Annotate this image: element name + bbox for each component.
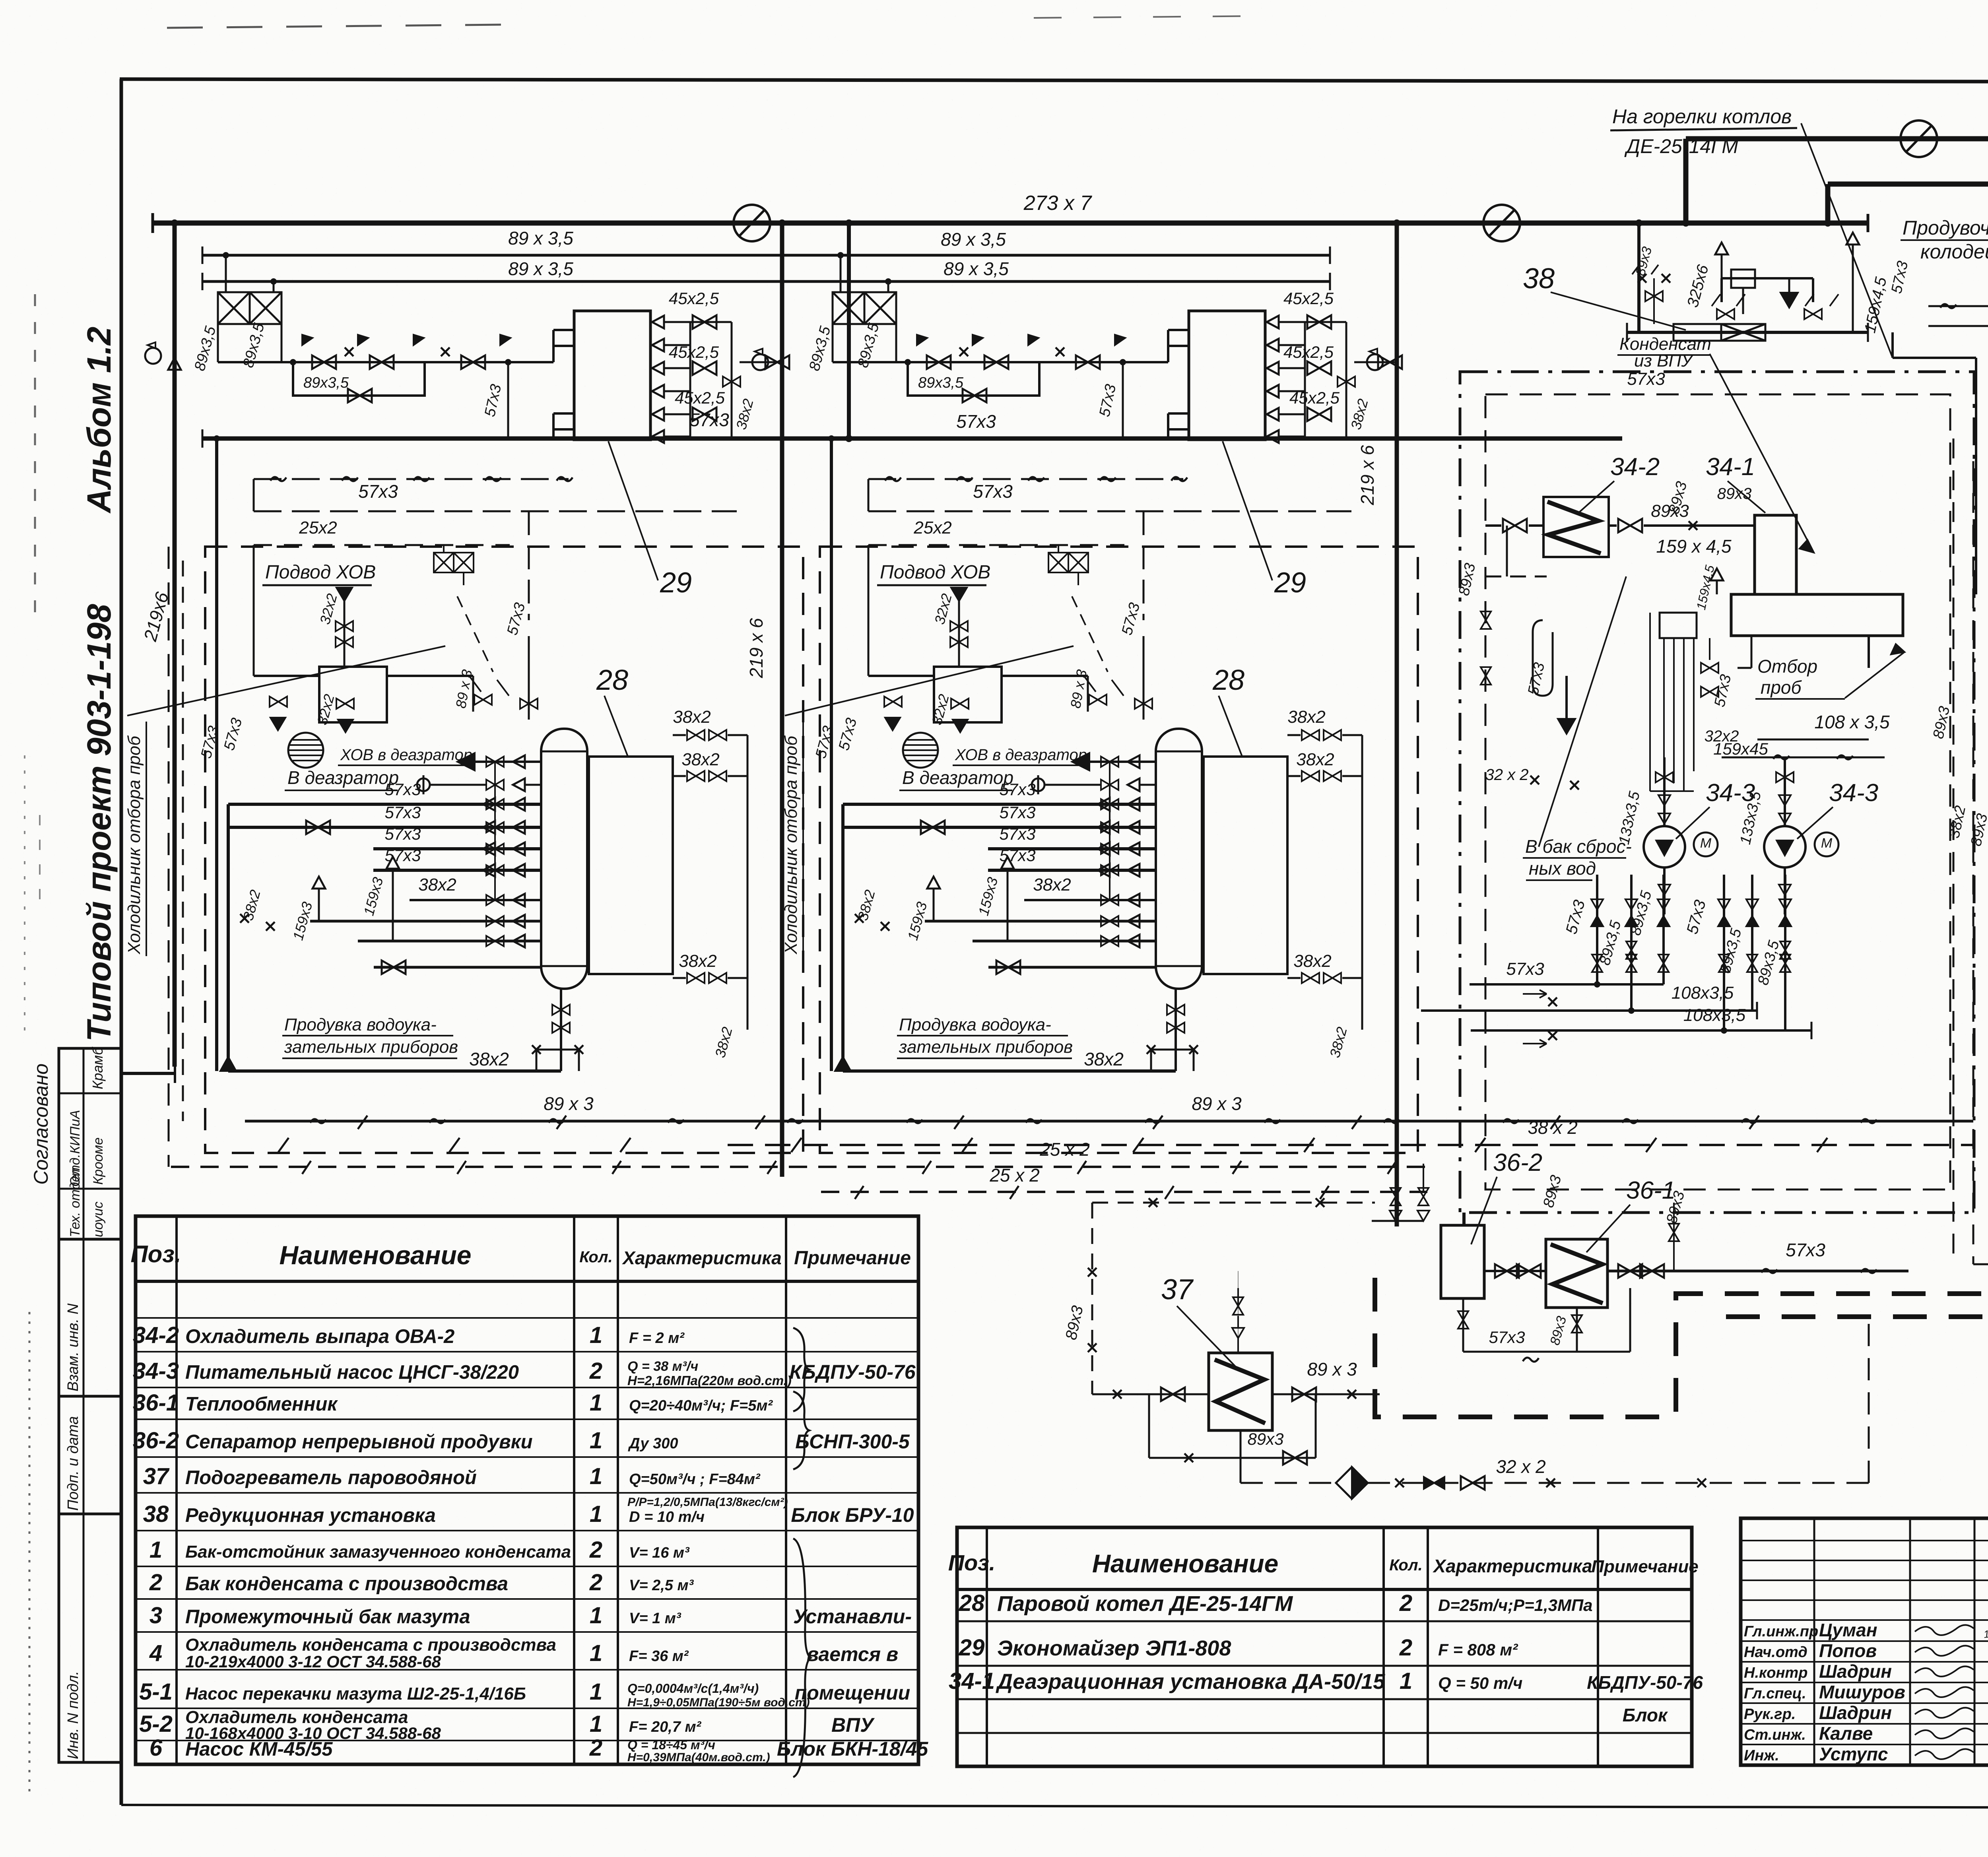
boiler unit 28 (right): boiler body 28 <box>1204 757 1287 974</box>
57x3 feed line <box>1470 983 1664 986</box>
parts table left <box>136 1216 918 1764</box>
boiler unit 28 (right): economizer inlet line <box>833 361 1168 363</box>
cooler 34-2 <box>1543 497 1609 557</box>
boiler unit 28 (left): valve cross assembly <box>218 292 250 324</box>
boiler unit 28 (left): right 38x2 connections <box>687 730 705 740</box>
boiler unit 28 (right): double-X valves mid <box>1048 553 1068 572</box>
line below 37 <box>1149 1457 1316 1459</box>
32x2 dashed line <box>1368 1482 1869 1484</box>
vertical dashed pipes bundle <box>1953 439 1955 1264</box>
boiler unit 28 (right): enclosure dashed box <box>820 547 1418 1153</box>
blowdown dashdot riser to 36-2 <box>1462 1213 1466 1225</box>
flow meter on header left <box>734 205 770 241</box>
KIP dash-dot enclosure <box>1460 372 1974 1213</box>
deaerator tank <box>1731 594 1903 636</box>
boiler unit 28 (right): feed lines to drum <box>843 803 1156 806</box>
boiler unit 28 (right): arrow into drum top <box>1072 753 1089 770</box>
steam to production line <box>1686 136 1988 142</box>
boiler unit 28 (right): blowdown bottom <box>1175 989 1177 1071</box>
boiler unit 28 (left): vent triangles 159x3 <box>313 877 325 889</box>
36-1 bottom drain <box>1576 1308 1578 1352</box>
deaerator internals box <box>1660 613 1697 638</box>
tank to pumps piping <box>1751 636 1753 668</box>
boiler unit 28 (left): flow meter small <box>752 349 768 370</box>
valves above 36-2 <box>1390 1188 1401 1205</box>
slash ticks on dashed lines <box>278 1138 289 1152</box>
reduction unit 38 line <box>1627 331 1868 334</box>
boiler unit 28 (left): lower drum inlets <box>486 916 504 926</box>
boiler unit 28 (left): 25x2 dashed <box>254 544 510 546</box>
boiler unit 28 (right): vent triangles 159x3 <box>927 877 940 889</box>
boiler unit 28 (left): sampling line 57x3 wavy <box>254 478 569 480</box>
left dashed verticals bottom area <box>168 547 170 1167</box>
scan edge artifacts left <box>34 294 36 620</box>
38x2 long dashed line <box>728 1144 1973 1146</box>
boiler unit 28 (left): slanted dashes and cluster <box>457 596 493 672</box>
boiler equipment table middle <box>957 1527 1692 1766</box>
diamond strainer <box>1336 1467 1368 1499</box>
junction dots block2 <box>837 252 844 258</box>
x dashed vertical left of 37 <box>1091 1203 1093 1394</box>
pump discharge manifold <box>1596 875 1598 984</box>
boiler unit 28 (right): 25x2 dashed <box>868 544 1124 546</box>
brace marks T1 <box>793 1328 809 1411</box>
sidebar signature block <box>59 1048 121 1239</box>
boiler unit 28 (right): phi symbol <box>1032 778 1044 791</box>
37 through line <box>1092 1393 1209 1395</box>
feedwater header 57x3 <box>202 437 1622 441</box>
boiler unit 28 (left): 57x3 dashed <box>254 510 737 512</box>
108x3.5 line A <box>1421 1009 1757 1012</box>
leader holodilnik left <box>127 646 445 716</box>
x-line to 36-2 <box>1092 1202 1375 1204</box>
valves above 37 <box>1233 1297 1243 1315</box>
boiler unit 28 (left): XOV heater box <box>319 667 387 722</box>
main steam header 273x7 <box>153 221 1868 226</box>
boiler unit 28 (right): economizer 29 <box>1189 311 1265 440</box>
flow meter on header right <box>1483 205 1520 241</box>
boiler unit 28 (right): boiler drum <box>1156 729 1202 989</box>
boiler unit 28 (right): right 38x2 connections <box>1302 730 1319 740</box>
water heater 37 <box>1209 1353 1272 1430</box>
heat exchanger 36-1 <box>1546 1239 1607 1308</box>
boiler unit 28 (right): XOV heater box <box>934 667 1002 722</box>
drain circle left <box>145 342 161 364</box>
leader kondensat <box>1710 354 1814 553</box>
boiler unit 28 (left): double-X valves mid <box>434 553 454 572</box>
kip arrows <box>1523 990 1547 998</box>
boiler unit 28 (right): flow meter small <box>1367 349 1383 370</box>
leader holodilnik right <box>785 646 1074 716</box>
89x3 long return line <box>245 1120 1973 1123</box>
34-2 valves <box>1503 519 1527 532</box>
25x2 dashed line B <box>821 1191 1427 1193</box>
boiler unit 28 (right): valve cross assembly <box>833 292 864 324</box>
boiler unit 28 (left): boiler body 28 <box>589 757 673 974</box>
junction dots block1 <box>223 252 229 258</box>
sidebar box Инв. N подл. <box>59 1514 121 1762</box>
reduction unit 38 boxes <box>1673 324 1721 341</box>
separator 36-2 <box>1441 1225 1484 1298</box>
vent triangle 38 <box>1715 243 1728 254</box>
drawing frame <box>120 79 123 1805</box>
36-2 bottom drain <box>1462 1298 1464 1352</box>
boiler unit 28 (right): drum inlet valves <box>1101 757 1118 767</box>
36-1 36-2 connecting line 57x3 <box>1484 1270 1546 1272</box>
25x2 dashed line A <box>171 1166 1427 1168</box>
boiler unit 28 (left): economizer outlet triangles <box>652 316 664 328</box>
34-2 left drain lines <box>1485 576 1547 578</box>
blowdown stub to frame <box>121 1072 175 1075</box>
steam to fuel-oil facility line <box>1828 182 1988 187</box>
valves left of 38 <box>1645 291 1663 301</box>
boiler unit 28 (right): sampling line 57x3 wavy <box>868 478 1183 480</box>
boiler unit 28 (left): bypass loop <box>293 362 425 396</box>
boiler unit 28 (right): v deaerator drains <box>885 718 900 730</box>
boiler unit 28 (left): arrow into drum top <box>457 753 475 770</box>
34-1 deaerator column <box>1755 515 1796 594</box>
boiler unit 28 (left): 57x3 left verticals <box>215 439 218 1071</box>
signature block <box>1741 1518 1988 1765</box>
riser 219x6 third <box>1395 223 1399 1226</box>
leader to burners <box>1801 123 1893 358</box>
boiler unit 28 (right): bypass loop <box>908 362 1039 396</box>
drop to feed header block2 <box>847 223 851 439</box>
inner dashed enclosure <box>1485 394 1950 1189</box>
boiler unit 28 (left): v deaerator drains <box>270 718 285 730</box>
wavy line into well <box>1928 305 1988 307</box>
manifold loops <box>1631 932 1664 938</box>
boiler unit 28 (left): drum inlet valves <box>486 757 504 767</box>
108x3.5 line B <box>1471 1029 1811 1032</box>
sidebar box Взам. инв. N <box>59 1239 121 1396</box>
boiler unit 28 (right): 57x3 dashed <box>868 510 1351 512</box>
boiler unit 28 (left): 38x2 line <box>410 899 541 901</box>
riser 219x6 middle <box>780 223 784 1177</box>
boiler unit 28 (left): economizer downpipe <box>507 362 509 439</box>
boiler unit 28 (left): economizer inlet line <box>218 361 553 363</box>
riser 219x6 left <box>173 223 177 1067</box>
riser from deaerator 159x4.5 <box>1891 332 1894 358</box>
boiler unit 28 (left): economizer 29 <box>574 311 650 440</box>
feed pumps 34-3 <box>1663 757 1666 826</box>
sidebar box Подп. и дата <box>59 1396 121 1514</box>
heavy dashed route <box>1375 1278 1988 1417</box>
boiler unit 28 (right): economizer outlet triangles <box>1267 316 1279 328</box>
steam header 89x3.5 upper <box>202 254 1330 257</box>
boiler unit 28 (right): 38x2 line <box>1024 899 1156 901</box>
reduction unit upper assembly <box>1722 278 1813 302</box>
boiler unit 28 (left): feed lines to drum <box>228 803 541 806</box>
boiler unit 28 (right): economizer downpipe <box>1122 362 1124 439</box>
boiler unit 28 (left): blowdown bottom <box>560 989 562 1071</box>
steam header 89x3.5 lower <box>202 280 1330 283</box>
boiler unit 28 (right): 57x3 left verticals <box>830 439 833 1071</box>
boiler unit 28 (left): enclosure dashed box <box>205 547 803 1153</box>
boiler unit 28 (left): boiler drum <box>541 729 587 989</box>
boiler unit 28 (right): lower drum inlets <box>1101 916 1118 926</box>
boiler unit 28 (left): phi symbol <box>417 778 430 791</box>
line from 37 down to diamond <box>1240 1458 1242 1483</box>
boiler unit 28 (right): slanted dashes and cluster <box>1072 596 1108 672</box>
car wash loop <box>1533 620 1553 696</box>
